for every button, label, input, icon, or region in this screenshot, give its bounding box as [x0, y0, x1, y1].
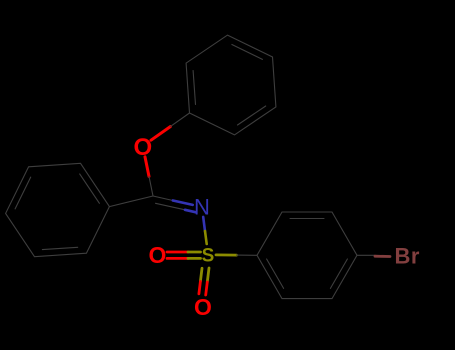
- wire right ring outline: [257, 212, 357, 299]
- phenyl ring left (C-phenyl): [6, 163, 110, 256]
- svg-text:O: O: [133, 134, 152, 161]
- double bond S=O2 line 1 (half olive, half red): [167, 251, 201, 254]
- phenyl ring top (O-phenyl): [186, 35, 276, 135]
- wire right ring aromatic inner lines: [290, 218, 324, 220]
- bond C1 - left ring: [109, 196, 153, 207]
- double bond S=O2 line 2: [167, 257, 201, 260]
- bond O1 - top ring (half red, half gray): [151, 113, 190, 140]
- double bond S=O3 line 2: [199, 268, 202, 294]
- bond right ring - Br (half gray, half dark red): [357, 255, 390, 256]
- bond O1 - C1 (half red, half gray): [145, 157, 153, 196]
- wire top ring aromatic inner lines: [238, 106, 266, 125]
- svg-text:Br: Br: [395, 244, 420, 269]
- svg-text:N: N: [194, 195, 210, 220]
- double bond C1=N main line (half gray, half blue): [153, 196, 193, 205]
- svg-text:O: O: [149, 242, 167, 268]
- svg-text:O: O: [194, 294, 212, 320]
- benzene ring right (bromophenyl): [257, 212, 357, 299]
- double bond S=O3 line 1 (half olive, half red): [206, 268, 209, 295]
- double bond C1=N second line: [156, 203, 197, 212]
- wire top ring outline: [186, 35, 276, 135]
- svg-text:S: S: [202, 246, 215, 267]
- bond N - S (half blue, half olive): [203, 217, 207, 244]
- wire left ring aromatic inner lines: [42, 247, 77, 249]
- bond S - right ring (half olive, half gray): [216, 253, 257, 256]
- wire left ring outline: [6, 163, 110, 256]
